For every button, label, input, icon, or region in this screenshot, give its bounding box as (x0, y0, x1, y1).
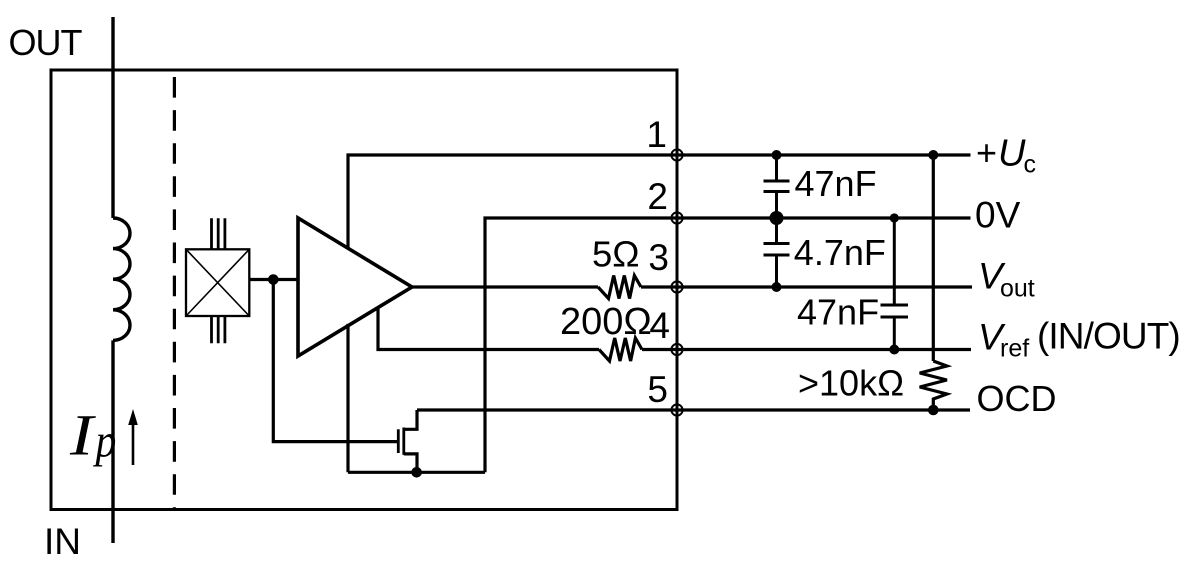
node C1 top (772, 150, 782, 160)
node MOSFET source / 0V junction (411, 467, 422, 478)
svg-text:OUT: OUT (9, 22, 83, 63)
svg-text:5Ω: 5Ω (592, 234, 640, 275)
svg-text:3: 3 (648, 237, 669, 278)
svg-text:ref: ref (1000, 335, 1029, 363)
wire 0V line (677, 216, 971, 219)
op-amp U1 (298, 218, 412, 356)
wire OCD line (677, 408, 970, 411)
resistor >10kΩ (920, 361, 947, 410)
wire Vref line (677, 348, 971, 351)
node C2 bottom (772, 282, 782, 292)
wire op-amp negative supply (346, 324, 349, 472)
resistor 5Ω (598, 276, 641, 299)
node pull-up bottom on OCD (928, 405, 939, 416)
svg-text:+: + (976, 132, 997, 173)
primary conductor top segment (111, 17, 114, 218)
pin 4 terminal (671, 344, 682, 355)
svg-text:out: out (1000, 275, 1035, 303)
primary winding coil (113, 218, 130, 340)
svg-text:>10kΩ: >10kΩ (798, 363, 904, 404)
pin 5 terminal (671, 404, 682, 415)
transistor Q1 gate bar (397, 429, 400, 453)
svg-text:200Ω: 200Ω (560, 301, 652, 343)
node C3 top on 0V (890, 213, 899, 222)
wire resistor to pin 3 (641, 285, 677, 288)
hall element bottom leads (212, 316, 225, 343)
hall element top leads (212, 218, 225, 249)
wire 0V pin 2 (485, 218, 677, 472)
transistor Q1 channel bar (402, 428, 405, 455)
current direction arrow (132, 423, 135, 465)
svg-text:c: c (1024, 151, 1037, 179)
wire Vout line (677, 285, 972, 288)
resistor 200Ω (599, 338, 642, 361)
pin 1 terminal (671, 149, 682, 160)
wire hall output to op-amp input (249, 278, 298, 281)
node 0V junction (770, 211, 784, 225)
pin 2 terminal (671, 212, 682, 223)
svg-text:p: p (93, 414, 117, 467)
wire pull-up rail (932, 155, 935, 361)
primary current label Ip (69, 403, 96, 467)
svg-text:IN: IN (44, 521, 81, 562)
transducer case (51, 70, 677, 510)
transistor Q1 source lead (404, 454, 417, 472)
capacitor C2 4.7nF (764, 218, 790, 287)
node pull-up top on +Uc (928, 150, 938, 160)
wire op-amp feedback to pin 4 (378, 308, 599, 350)
svg-text:47nF: 47nF (797, 292, 879, 333)
capacitor C1 47nF (764, 155, 790, 218)
node hall output / gate junction (268, 274, 279, 285)
capacitor C3 47nF (881, 218, 909, 350)
wire resistor to pin 4 (642, 348, 677, 351)
node C3 bottom on Vref (889, 345, 899, 355)
magnetic core dashed separator (173, 77, 176, 509)
svg-text:(IN/OUT): (IN/OUT) (1037, 316, 1180, 357)
svg-text:0V: 0V (975, 195, 1021, 236)
svg-text:U: U (998, 133, 1026, 175)
wire drain to pin 5 (OCD) (417, 408, 677, 411)
primary conductor bottom segment (111, 340, 114, 543)
svg-text:4.7nF: 4.7nF (794, 232, 886, 273)
svg-text:I: I (69, 403, 96, 467)
wire op-amp output (412, 285, 598, 288)
pin 3 terminal (671, 281, 682, 292)
svg-text:4: 4 (649, 305, 670, 346)
svg-text:5: 5 (647, 369, 668, 410)
svg-text:2: 2 (647, 176, 668, 217)
wire +Uc line (677, 153, 971, 156)
wire op-amp positive supply to pin 1 (348, 155, 677, 248)
wire gate drive (273, 280, 397, 442)
wire source 0V rail (348, 471, 485, 474)
svg-text:1: 1 (646, 114, 667, 155)
transistor Q1 drain lead (404, 410, 417, 429)
hall element diagonals (186, 249, 249, 316)
svg-text:47nF: 47nF (795, 163, 877, 204)
hall element box (186, 249, 249, 316)
svg-text:OCD: OCD (977, 378, 1057, 419)
